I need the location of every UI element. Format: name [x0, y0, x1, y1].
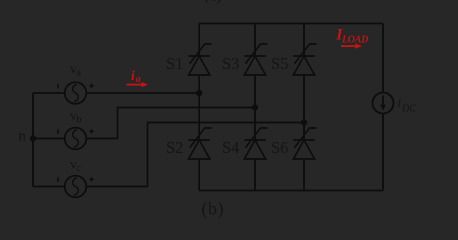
- switch S2: [189, 128, 212, 159]
- arrow ILOAD: [341, 43, 362, 48]
- svg-text:n: n: [19, 129, 27, 145]
- source Vc sine: [73, 178, 79, 195]
- switch S3: [244, 44, 267, 75]
- arrow ia: [127, 82, 149, 87]
- node phase a junction: [196, 90, 202, 96]
- source Vb sine: [73, 130, 79, 147]
- source Vc plus: [89, 177, 93, 181]
- source Va circle: [65, 82, 87, 104]
- svg-text:c: c: [76, 163, 81, 174]
- svg-text:S6: S6: [271, 138, 288, 157]
- wire phase a: [33, 92, 199, 94]
- node n junction: [30, 135, 36, 141]
- svg-text:a: a: [76, 68, 81, 79]
- wire leg1 upper: [198, 24, 200, 57]
- wire leg2 upper: [254, 24, 256, 57]
- wire bottom bus: [199, 190, 383, 192]
- svg-text:i: i: [397, 96, 401, 111]
- svg-text:(b): (b): [201, 199, 224, 220]
- source Vb plus: [89, 129, 93, 133]
- wire leg3 upper: [303, 24, 305, 57]
- node phase b junction: [252, 104, 258, 110]
- svg-text:DC: DC: [401, 103, 416, 114]
- wire leg1 lower: [198, 159, 200, 191]
- source Va sine: [73, 84, 79, 101]
- svg-text:b: b: [76, 115, 81, 126]
- wire leg2 middle: [254, 75, 256, 140]
- source Vb circle: [65, 128, 87, 150]
- node phase c junction: [301, 119, 307, 125]
- wire leg3 lower: [303, 159, 305, 191]
- source Vc circle: [65, 176, 87, 198]
- source Va minus tick: [57, 84, 59, 89]
- current source iDC arrowhead: [380, 105, 385, 111]
- wire right rail upper: [382, 24, 384, 93]
- source Vc minus tick: [57, 177, 59, 182]
- svg-text:(a): (a): [204, 0, 222, 5]
- switch S6: [293, 128, 316, 159]
- wire leg2 lower: [254, 159, 256, 191]
- switch S4: [244, 128, 267, 159]
- wire phase b: [33, 108, 255, 139]
- wire left rail: [32, 93, 34, 187]
- wire phase c: [33, 123, 304, 187]
- svg-text:S2: S2: [166, 138, 183, 157]
- source Va plus: [89, 84, 93, 88]
- svg-text:a: a: [136, 74, 141, 85]
- switch S5: [293, 44, 316, 75]
- source Vb minus tick: [57, 129, 59, 134]
- svg-text:S3: S3: [222, 54, 239, 73]
- wire leg1 middle: [198, 75, 200, 140]
- svg-text:S5: S5: [271, 54, 288, 73]
- wire top bus: [199, 23, 383, 25]
- svg-text:LOAD: LOAD: [341, 34, 368, 45]
- svg-text:S4: S4: [222, 138, 239, 157]
- wire right rail lower: [382, 114, 384, 191]
- svg-text:i: i: [131, 68, 135, 83]
- svg-text:S1: S1: [166, 54, 183, 73]
- switch S1: [189, 44, 212, 75]
- wire leg3 middle: [303, 75, 305, 140]
- current source iDC: [373, 93, 394, 114]
